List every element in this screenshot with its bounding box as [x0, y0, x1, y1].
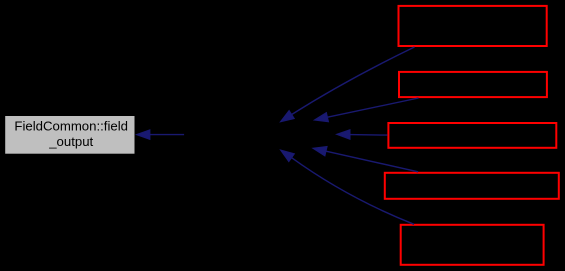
node caller-1 (red box, top) [399, 6, 547, 46]
edge caller-2 -> middle-node [314, 98, 418, 122]
svg-text:FieldCommon::field: FieldCommon::field [14, 119, 128, 134]
node caller-4 (red box) [385, 173, 559, 199]
node caller-3 (red box, middle) [388, 123, 556, 148]
edge caller-4 -> middle-node [313, 147, 418, 172]
edge caller-5 -> middle-node [281, 150, 415, 224]
edge caller-3 -> middle-node [337, 130, 388, 140]
edge caller-1 -> middle-node [280, 47, 414, 122]
node caller-5 (red box, bottom) [401, 225, 544, 265]
svg-text:_output: _output [48, 134, 93, 149]
node caller-2 (red box) [399, 72, 547, 97]
node FieldCommon::field_output (gray) [5, 116, 135, 155]
edge middle-node -> field_output [136, 130, 184, 140]
